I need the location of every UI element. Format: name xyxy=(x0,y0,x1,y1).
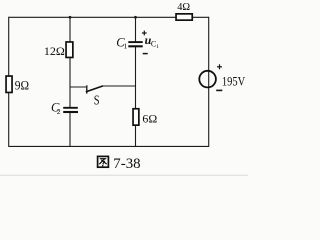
resistor 4ohm xyxy=(176,14,192,20)
label + of source xyxy=(217,64,222,69)
svg-text:4Ω: 4Ω xyxy=(177,1,190,13)
label - of source xyxy=(216,89,222,91)
wire bottom horizontal xyxy=(9,145,209,147)
svg-text:7-38: 7-38 xyxy=(113,156,140,172)
label - of uC1 xyxy=(143,53,148,55)
wire right-middle branch (C1 / 6 ohm) xyxy=(135,17,137,146)
label C2 xyxy=(51,101,61,117)
wire right vertical xyxy=(208,17,210,147)
svg-text:S: S xyxy=(94,93,100,108)
capacitor C2 plates xyxy=(63,108,78,112)
svg-text:9Ω: 9Ω xyxy=(15,78,29,92)
wire left vertical xyxy=(8,17,10,147)
svg-text:2: 2 xyxy=(57,107,61,116)
capacitor C1 plates xyxy=(128,42,142,46)
label uC1 voltage xyxy=(145,33,160,50)
resistor 6ohm xyxy=(133,109,139,125)
svg-text:1: 1 xyxy=(156,44,159,50)
label C1 xyxy=(116,35,127,50)
wire switch horizontal right segment xyxy=(103,85,136,87)
voltage source 195V circle xyxy=(199,71,216,88)
svg-text:12Ω: 12Ω xyxy=(44,44,65,58)
svg-text:6Ω: 6Ω xyxy=(142,112,157,126)
resistor 9ohm xyxy=(6,76,12,92)
switch S blade xyxy=(86,86,103,92)
node junction top of 12-ohm branch xyxy=(69,16,72,19)
svg-text:195V: 195V xyxy=(222,74,246,89)
resistor 12ohm xyxy=(66,42,73,58)
node junction top of C1 branch xyxy=(134,16,137,19)
wire top horizontal xyxy=(9,16,209,18)
page separator line xyxy=(0,174,248,176)
wire middle branch (12 ohm / C2) xyxy=(69,17,71,146)
svg-text:1: 1 xyxy=(123,41,127,50)
caption character tu (figure) drawn as glyph xyxy=(98,156,109,167)
label + of uC1 xyxy=(142,31,147,36)
switch S contact tick xyxy=(86,85,88,93)
wire switch horizontal left segment xyxy=(70,86,86,88)
